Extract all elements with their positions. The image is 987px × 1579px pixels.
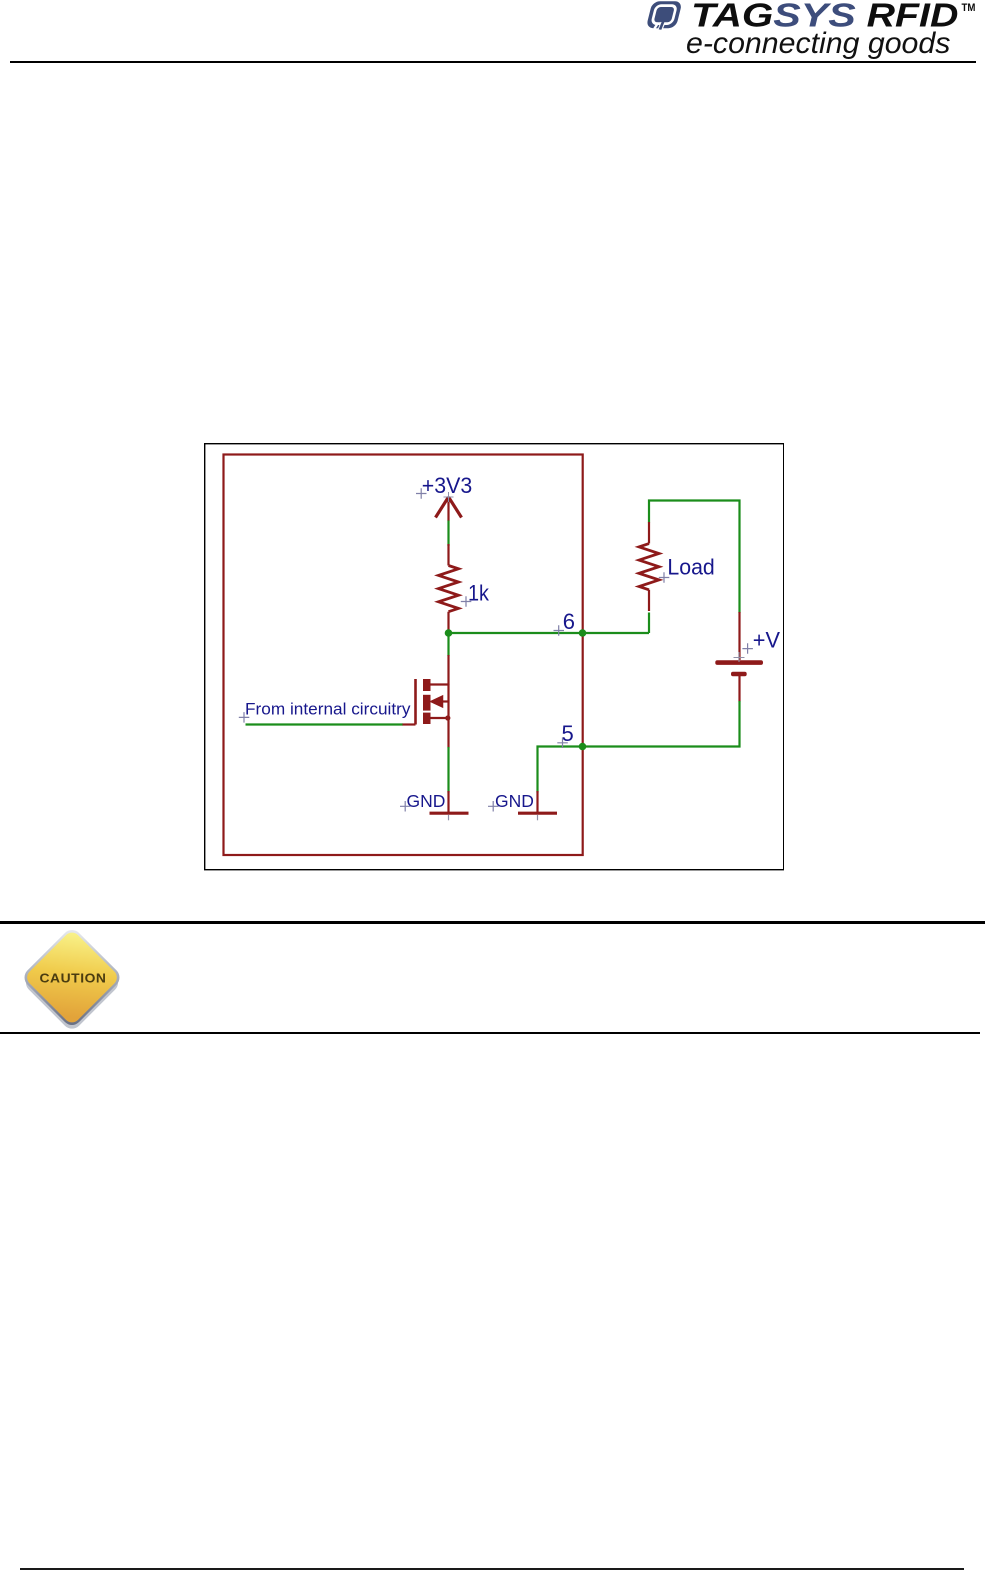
wire	[449, 632, 650, 634]
node 5	[579, 743, 587, 751]
header rule	[10, 61, 976, 63]
caution band bottom rule	[0, 1032, 980, 1034]
svg-text:GND: GND	[407, 791, 446, 811]
wire	[246, 723, 403, 725]
label GND1	[400, 791, 445, 812]
caution icon	[14, 920, 136, 1034]
wire	[447, 655, 449, 685]
svg-text:6: 6	[563, 609, 575, 634]
caution band top rule	[0, 921, 985, 924]
wire	[447, 521, 449, 547]
pin 5 label	[557, 721, 573, 748]
svg-text:+3V3: +3V3	[422, 473, 473, 498]
ground GND2	[518, 791, 557, 820]
ground GND1	[430, 791, 469, 820]
logo Q icon	[645, 1, 682, 30]
wire	[649, 501, 740, 634]
logo tagline	[686, 27, 950, 60]
svg-text:Load: Load	[667, 554, 714, 579]
wire	[538, 701, 740, 793]
pin 6 label	[554, 609, 576, 636]
node junction	[445, 629, 453, 637]
logo wordmark	[691, 0, 975, 34]
label GND2	[488, 791, 534, 812]
footer rule	[20, 1568, 964, 1570]
svg-text:TM: TM	[962, 3, 976, 15]
svg-text:GND: GND	[495, 791, 534, 811]
power +3V3	[436, 497, 462, 521]
label Load	[659, 554, 715, 582]
module boundary box	[224, 455, 583, 856]
wire	[447, 634, 449, 656]
label +3V3	[416, 473, 472, 502]
label From internal circuitry	[239, 700, 411, 723]
schematic figure	[204, 443, 784, 871]
node 6	[579, 629, 587, 637]
label +V	[742, 628, 780, 654]
resistor R1 1k	[439, 544, 459, 632]
svg-text:e-connecting goods: e-connecting goods	[686, 27, 950, 60]
label 1k	[461, 581, 490, 607]
svg-text:From internal circuitry: From internal circuitry	[245, 700, 411, 719]
battery +V	[715, 612, 763, 702]
svg-text:+V: +V	[753, 628, 781, 653]
wire	[447, 747, 449, 793]
transistor Q1 MOSFET	[402, 679, 450, 748]
resistor Load	[639, 522, 659, 611]
svg-text:CAUTION: CAUTION	[40, 971, 107, 985]
TAGSYS RFID logo	[620, 0, 987, 62]
